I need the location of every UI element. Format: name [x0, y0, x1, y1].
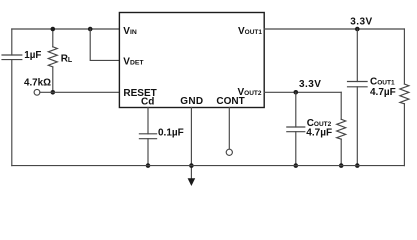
capacitor Cd 0.1uF — [139, 134, 156, 139]
wire: RESET line to IC — [40, 91, 120, 93]
label: COUT2 — [307, 118, 332, 129]
resistor R1 (VOUT1 load) — [400, 84, 409, 104]
wire: RL branch vertical — [52, 29, 54, 92]
terminal: 4.7k open circle — [34, 89, 40, 95]
svg-text:1µF: 1µF — [24, 50, 41, 61]
svg-text:3.3V: 3.3V — [299, 79, 321, 90]
op-amp U1: regulator IC body — [119, 13, 264, 108]
wire: COUT2 branch vertical — [295, 92, 297, 165]
terminal: CONT open circle — [226, 149, 232, 155]
label: 0.1uF value — [158, 128, 184, 139]
wire: GND pin down through rail — [190, 108, 192, 180]
label: COUT1 value 4.7uF — [370, 87, 396, 98]
wire: Cd pin branch — [147, 108, 149, 166]
svg-text:3.3V: 3.3V — [350, 16, 372, 27]
svg-text:VOUT1: VOUT1 — [238, 26, 262, 37]
pin label: VIN — [123, 26, 137, 37]
node: junction dot RL top — [51, 27, 56, 32]
pin label: GND — [180, 96, 203, 107]
svg-text:Cd: Cd — [141, 97, 154, 108]
svg-text:4.7µF: 4.7µF — [306, 128, 332, 139]
svg-text:VDET: VDET — [123, 56, 144, 67]
wire: VOUT2 rail — [264, 91, 341, 93]
svg-text:4.7µF: 4.7µF — [370, 87, 396, 98]
node: junction dot COUT1 tap — [355, 27, 360, 32]
svg-text:4.7kΩ: 4.7kΩ — [24, 78, 51, 89]
node: junction dot COUT1 bottom — [355, 163, 360, 168]
resistor R2 (VOUT2 load) — [337, 119, 346, 139]
node: junction dot COUT2 bottom — [294, 163, 299, 168]
pin label: CONT — [216, 96, 244, 107]
pin label: RESET — [123, 88, 156, 99]
label: RL — [61, 54, 73, 65]
capacitor COUT2 4.7uF — [287, 127, 305, 132]
svg-text:RL: RL — [61, 54, 73, 65]
label: 1uF value — [24, 50, 41, 61]
label: 3.3V on VOUT2 — [299, 79, 321, 90]
label: 4.7kOhm — [24, 78, 51, 89]
svg-text:VOUT2: VOUT2 — [238, 87, 262, 98]
capacitor COUT1 4.7uF — [348, 82, 368, 87]
capacitor C1 1uF — [2, 55, 22, 60]
ground: arrow symbol — [188, 178, 196, 186]
wire: top VIN rail — [12, 28, 120, 30]
wire: bottom ground rail — [12, 165, 405, 167]
node: junction dot GND on bottom rail — [189, 163, 194, 168]
wire: COUT1 branch vertical — [356, 29, 358, 166]
wire: VOUT1 rail to right edge — [264, 28, 404, 30]
node: junction dot VDET branch on top rail — [88, 27, 93, 32]
wire: CONT pin down — [228, 108, 230, 150]
node: junction dot COUT2 tap — [294, 90, 299, 95]
pin label: Cd — [141, 97, 154, 108]
node: junction dot R2 bottom — [339, 163, 344, 168]
pin label: VOUT1 — [238, 26, 262, 37]
svg-text:COUT1: COUT1 — [370, 76, 395, 87]
svg-text:VIN: VIN — [123, 26, 137, 37]
label: COUT2 value 4.7uF — [306, 128, 332, 139]
node: junction dot RL bottom / RESET wire — [51, 90, 56, 95]
wire: right edge vertical (load R1 branch) — [403, 29, 405, 166]
wire: VDET branch — [90, 29, 119, 60]
pin label: VOUT2 — [238, 87, 262, 98]
label: 3.3V on VOUT1 — [350, 16, 372, 27]
resistor RL — [48, 47, 57, 67]
wire: R2 branch vertical (VOUT2 load) — [340, 92, 342, 165]
svg-text:0.1µF: 0.1µF — [158, 128, 184, 139]
node: junction dot Cd branch on bottom rail — [146, 163, 151, 168]
wire: left edge vertical (input cap branch) — [11, 29, 13, 166]
svg-text:GND: GND — [180, 96, 203, 107]
label: COUT1 — [370, 76, 395, 87]
pin label: VDET — [123, 56, 144, 67]
